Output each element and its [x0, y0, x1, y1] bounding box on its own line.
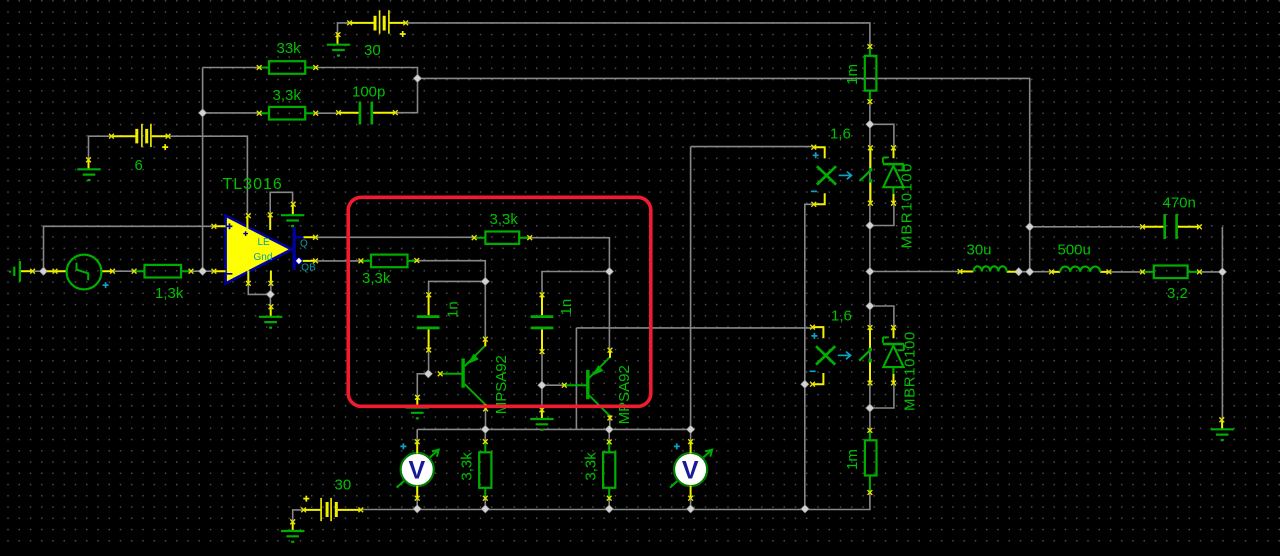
wire elbow to C2 top — [542, 272, 609, 295]
capacitor C2 1n — [531, 292, 575, 354]
svg-text:Q: Q — [300, 238, 308, 249]
svg-text:30u: 30u — [967, 241, 992, 258]
resistor 33k — [257, 40, 318, 74]
inductor 1m top — [844, 44, 876, 104]
svg-text:Gnd: Gnd — [254, 252, 273, 263]
resistor 3,3k QB side — [359, 255, 420, 287]
resistor R3 3,3k — [459, 439, 492, 500]
wire voltmeter V1 top stub — [416, 429, 418, 441]
op-amp U1 TL3016 — [212, 176, 318, 286]
junction V2 top — [687, 425, 695, 433]
svg-text:3,3k: 3,3k — [582, 452, 599, 481]
battery 30 top — [347, 10, 408, 59]
wire battery 6 left elbow — [89, 136, 112, 158]
ground Q1 base — [406, 395, 429, 418]
svg-text:3,3k: 3,3k — [362, 270, 391, 287]
wire battery30-top left elbow — [338, 23, 351, 33]
wire collector node horizontal — [417, 428, 690, 430]
wire switch S1 control plus — [691, 146, 814, 148]
svg-text:100p: 100p — [352, 84, 385, 101]
wire 500u to 3,2 — [1109, 271, 1143, 273]
wire to inductor 1m bottom — [869, 408, 871, 430]
resistor R4 3,3k — [582, 440, 615, 501]
svg-text:V: V — [682, 457, 699, 485]
wire switch S2 control plus — [576, 328, 812, 430]
junction opamp ground — [266, 290, 274, 298]
svg-text:TL3016: TL3016 — [223, 176, 283, 193]
svg-text:3,3k: 3,3k — [459, 452, 476, 481]
junction R3 bottom — [481, 505, 489, 513]
svg-text:33k: 33k — [277, 40, 302, 57]
svg-text:V: V — [408, 457, 425, 485]
svg-text:MBR10100: MBR10100 — [899, 162, 916, 248]
svg-text:1m: 1m — [844, 64, 861, 85]
ground right output — [1211, 417, 1234, 440]
diode D1 MBR10100 — [883, 145, 916, 248]
voltage source VG1 — [47, 255, 115, 290]
wire C1 bottom to Q1 base — [428, 350, 430, 374]
svg-text:1m: 1m — [844, 449, 861, 470]
diode D2 MBR10100 — [883, 325, 919, 411]
capacitor 470n — [1140, 195, 1202, 240]
wire long vertical control node — [690, 147, 692, 430]
svg-text:MPSA92: MPSA92 — [616, 365, 633, 424]
ground left (rotated) — [10, 261, 35, 282]
junction R3 top — [481, 425, 489, 433]
junction right output node — [1218, 268, 1226, 276]
voltmeter V1 — [397, 439, 439, 500]
wire elbow to C1 top — [429, 281, 486, 294]
wire 1,3k to inverting input — [191, 270, 214, 272]
junction V1 bottom — [413, 505, 421, 513]
wire battery30-top to inductor 1m top — [406, 23, 870, 47]
wire left feedback node vertical — [203, 68, 260, 272]
switch S2 1,6 — [810, 308, 873, 387]
svg-text:30: 30 — [335, 476, 352, 493]
wire Q output — [316, 236, 475, 238]
resistor 3,2 — [1140, 266, 1202, 303]
resistor 1,3k — [132, 265, 194, 302]
resistor 3,3k feedback — [257, 87, 318, 120]
voltmeter V2 — [670, 439, 712, 500]
wire Q1 base node to ground — [417, 374, 428, 397]
svg-text:30: 30 — [364, 42, 381, 59]
wire Q1 collector to node — [485, 409, 487, 430]
svg-text:1,6: 1,6 — [831, 308, 852, 325]
wire opamp bottom pins to ground — [248, 283, 271, 306]
transistor Q1 MPSA92 — [438, 337, 510, 414]
wire Q2 base node to base — [542, 384, 564, 386]
junction R4 bottom — [605, 505, 613, 513]
junction V2 bottom — [687, 505, 695, 513]
wire resistor R3 top stub — [484, 429, 486, 441]
wire switch control minus chain — [805, 204, 814, 509]
wire voltmeter V2 top stub — [690, 429, 692, 441]
ground battery 30 top — [327, 32, 350, 55]
svg-text:QB: QB — [301, 262, 316, 273]
junction top-wire column — [1026, 268, 1034, 276]
wire C2 bottom to Q2 base — [541, 352, 543, 386]
highlight box (red) — [348, 197, 651, 406]
junction inverting input — [199, 267, 207, 275]
wire R4 bottom stub — [608, 498, 610, 509]
junction diode D2 bottom node — [866, 404, 874, 412]
junction 1m top node — [866, 120, 874, 128]
wire non-inverting input up-and-over — [44, 226, 214, 271]
wire output rail to 30u — [870, 271, 960, 273]
junction diode D2 top node — [866, 302, 874, 310]
ground battery 30 bottom — [281, 519, 304, 541]
svg-text:1,3k: 1,3k — [155, 285, 184, 302]
svg-text:LE: LE — [258, 237, 271, 248]
junction C2 tap — [605, 267, 613, 275]
ground battery 6 — [77, 157, 100, 180]
wire right node vertical to ground — [1221, 227, 1223, 420]
wire R3 bottom stub — [484, 498, 486, 509]
wire top long horizontal to right column — [418, 78, 1030, 271]
svg-text:3,3k: 3,3k — [273, 87, 302, 104]
capacitor C1 1n — [417, 292, 462, 352]
junction node A — [39, 267, 47, 275]
svg-text:1n: 1n — [444, 301, 461, 318]
resistor 3,3k Q side — [472, 211, 532, 244]
wire V2 bottom stub — [690, 498, 692, 509]
wire battery 6 to opamp V+ — [168, 136, 247, 215]
svg-text:1,6: 1,6 — [830, 125, 851, 142]
wire 30u to 500u — [1016, 271, 1052, 273]
wire source to 1,3k — [113, 270, 135, 272]
junction feedback top — [413, 74, 421, 82]
wire opamp top pin2 bend to ground — [270, 192, 292, 215]
wire battery30-bottom left elbow — [293, 510, 304, 521]
battery 30 bottom — [301, 476, 363, 521]
wire bottom rail — [361, 493, 870, 510]
wire diode D1 parallel branch — [870, 124, 894, 225]
junction C1 tap — [481, 277, 489, 285]
wire 470n left — [1030, 226, 1143, 228]
inductor 30u — [958, 241, 1016, 274]
svg-text:6: 6 — [135, 157, 143, 174]
transistor Q2 MPSA92 — [562, 348, 633, 425]
wire feedback 33k right side — [316, 68, 418, 113]
junction 470n tap — [1026, 223, 1034, 231]
svg-text:500u: 500u — [1058, 241, 1091, 258]
wire source left to ground — [33, 270, 47, 272]
wire Q resistor to Q2 emitter — [530, 238, 610, 351]
ground op-amp top — [281, 202, 304, 226]
junction 30u output — [1015, 268, 1023, 276]
wire QB output — [316, 260, 361, 262]
wire 3,3k to 100p — [316, 112, 339, 114]
svg-text:1n: 1n — [558, 299, 575, 316]
junction feedback tap — [199, 109, 207, 117]
wire Q2 base node to ground — [541, 385, 543, 409]
wire Q2 collector to node — [609, 418, 611, 429]
capacitor 100p — [336, 84, 398, 125]
wire diode D2 parallel branch — [870, 306, 894, 408]
battery 6 — [109, 124, 171, 174]
junction rail ctrl minus — [801, 505, 809, 513]
junction Q1 base — [424, 370, 432, 378]
junction diode D1 bottom node — [866, 221, 874, 229]
wire QB resistor to Q1 emitter — [417, 261, 486, 340]
inductor 1m bottom — [844, 428, 877, 495]
wire resistor R4 top stub — [608, 429, 610, 442]
junction S2 control minus — [801, 380, 809, 388]
junction Q2 base — [538, 381, 546, 389]
wire 3,2 to right node — [1199, 271, 1222, 273]
wire V1 bottom stub — [416, 498, 418, 509]
svg-text:3,3k: 3,3k — [490, 211, 519, 228]
inductor 500u — [1049, 241, 1111, 274]
svg-text:MBR10100: MBR10100 — [902, 331, 919, 411]
svg-text:3,2: 3,2 — [1167, 285, 1188, 302]
svg-text:470n: 470n — [1163, 195, 1196, 212]
junction output rail left — [866, 267, 874, 275]
junction R4 top — [605, 425, 613, 433]
switch S1 1,6 — [811, 125, 873, 206]
wire vertical switch/diode column top — [869, 102, 871, 408]
ground Q2 base — [530, 407, 553, 429]
ground op-amp bottom — [259, 304, 282, 327]
